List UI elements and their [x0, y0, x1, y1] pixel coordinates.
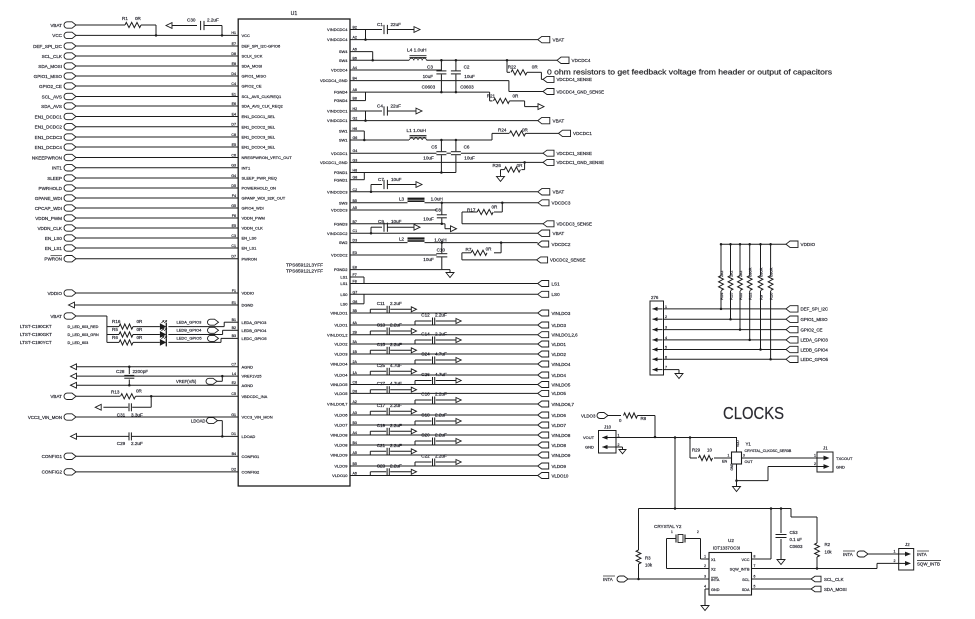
wire L4 to VDCDC4 — [427, 59, 558, 62]
svg-text:TXCOUT: TXCOUT — [836, 456, 853, 461]
wire U1 VINLDO8 pin A4 to port VINLDO8 — [330, 431, 537, 438]
svg-text:LEDC_GPIO5: LEDC_GPIO5 — [177, 336, 203, 341]
svg-text:FGND4: FGND4 — [334, 98, 348, 103]
svg-text:2B: 2B — [353, 331, 358, 335]
input port EN1_DCDC1 with wire to U1 — [35, 112, 276, 119]
svg-text:R29: R29 — [692, 447, 701, 452]
svg-text:2.2uF: 2.2uF — [390, 463, 402, 468]
wire U2 SCL to port — [752, 578, 812, 580]
svg-text:SCL_AVS: SCL_AVS — [42, 94, 62, 99]
wire U1 VDCDC1_GND pin G3 — [320, 158, 543, 165]
capacitor C25 4.7uF — [370, 363, 416, 375]
resistor R15 2k2 — [728, 243, 733, 321]
svg-text:G3: G3 — [353, 158, 358, 162]
svg-text:L1 1.0uH: L1 1.0uH — [407, 128, 427, 134]
svg-text:R26: R26 — [493, 163, 502, 168]
svg-text:0R: 0R — [137, 327, 144, 332]
svg-text:GPIO1_MISO: GPIO1_MISO — [801, 317, 829, 322]
output port VLDO8 — [538, 442, 567, 448]
wire clock rail down — [674, 438, 676, 509]
svg-text:2: 2 — [704, 564, 706, 568]
output port GPIO1_MISO — [786, 316, 828, 322]
svg-text:0.1 uF: 0.1 uF — [790, 537, 803, 542]
svg-text:H8: H8 — [353, 169, 358, 173]
svg-text:A5: A5 — [353, 451, 357, 455]
wire U1 VINLDO9 pin A5 to port VINLDO9 — [330, 451, 537, 458]
svg-text:0R: 0R — [137, 335, 144, 340]
net pointer C4 — [416, 108, 422, 114]
svg-text:VDCDC4: VDCDC4 — [331, 68, 348, 73]
inductor L4 1.0uH — [407, 48, 427, 61]
net pointer VREF with wire to U1 — [71, 372, 263, 379]
wire U1 FGND4 pin B8 — [334, 92, 366, 103]
svg-text:VLDO7: VLDO7 — [334, 423, 348, 428]
wire U1 VDCDC4 pin A4 — [331, 66, 441, 73]
svg-text:B4: B4 — [353, 441, 357, 445]
net pointer C1 — [414, 27, 420, 33]
output port LEDB_GPIO4 — [786, 346, 828, 352]
wire net GPIO2_CE row — [663, 329, 786, 331]
svg-text:D2: D2 — [231, 468, 236, 472]
svg-text:VINLDO1,2,6: VINLDO1,2,6 — [552, 333, 579, 338]
svg-text:10: 10 — [707, 447, 712, 452]
svg-text:276: 276 — [651, 295, 659, 300]
input port EN_LS0 with wire to U1 — [45, 234, 257, 241]
svg-text:F6: F6 — [232, 214, 236, 218]
svg-text:A6: A6 — [353, 472, 357, 476]
svg-text:VDCDC1: VDCDC1 — [331, 151, 348, 156]
svg-text:E5: E5 — [232, 143, 236, 147]
capacitor C30 2.2uF — [187, 18, 223, 37]
svg-text:L3: L3 — [399, 197, 405, 202]
output port VINLDO3 — [538, 310, 571, 316]
svg-text:EN1_DCDC4: EN1_DCDC4 — [35, 145, 63, 150]
capacitor C8 10uF — [423, 203, 447, 224]
svg-text:C15: C15 — [377, 342, 386, 347]
net pointer AGND2 with wire to U1 — [71, 381, 254, 388]
wire riser VINDCDC1 — [364, 111, 367, 122]
svg-text:X1: X1 — [711, 558, 716, 562]
output port VDCDC4 — [557, 57, 591, 63]
svg-text:3B: 3B — [353, 309, 358, 313]
wire U1 VDCDC4_GND pin B4 — [320, 77, 543, 92]
svg-text:B3: B3 — [232, 334, 236, 338]
input port SCL_CLK with wire to U1 — [42, 52, 263, 59]
capacitor C28 2200pF — [116, 366, 148, 387]
svg-text:LS0: LS0 — [340, 292, 348, 297]
wire U1 VINLDO6,7 pin A2 to port VINLDO6,7 — [327, 400, 538, 407]
svg-text:4: 4 — [665, 336, 667, 340]
wire clock VLDO3 rail — [616, 436, 737, 439]
svg-text:SQW_INTB: SQW_INTB — [917, 561, 940, 566]
capacitor C5 10uF — [423, 140, 446, 173]
svg-text:VLDO9: VLDO9 — [552, 464, 567, 469]
svg-text:EN_LS0: EN_LS0 — [45, 236, 63, 241]
svg-text:2.2uF: 2.2uF — [390, 301, 402, 306]
wire U1 VINLDO1,2 pin 2B to port VINLDO1,2,6 — [327, 331, 538, 338]
svg-text:VREF1V25: VREF1V25 — [242, 374, 263, 379]
output port VDDIO — [786, 241, 815, 247]
svg-text:VDCDC3: VDCDC3 — [331, 208, 348, 213]
svg-text:LS1: LS1 — [340, 281, 348, 286]
wire U1 VLDO10 pin A6 to port VLDO10 — [332, 472, 538, 479]
svg-text:SW4: SW4 — [339, 49, 348, 54]
svg-text:R5: R5 — [112, 327, 118, 332]
svg-text:R24: R24 — [498, 127, 507, 132]
wire U1 VLDO5 pin D8 to port VLDO5 — [334, 389, 537, 396]
svg-text:B1: B1 — [232, 318, 236, 322]
svg-text:LEDC_GPIO5: LEDC_GPIO5 — [801, 357, 829, 362]
svg-text:C2: C2 — [464, 64, 470, 69]
svg-text:INT1: INT1 — [242, 165, 251, 170]
capacitor C1 22uF — [377, 22, 414, 34]
svg-text:C6: C6 — [231, 153, 236, 157]
svg-text:6: 6 — [754, 575, 756, 579]
svg-text:FGND4: FGND4 — [334, 90, 348, 95]
svg-text:VLDO6: VLDO6 — [334, 413, 348, 418]
svg-text:EN1_DCDC1_SEL: EN1_DCDC1_SEL — [242, 114, 276, 119]
svg-text:VLDO3: VLDO3 — [334, 352, 348, 357]
svg-text:C29: C29 — [117, 441, 126, 446]
svg-text:4A: 4A — [353, 321, 358, 325]
svg-text:VLDO5: VLDO5 — [552, 391, 567, 396]
output port VDCDC1_SENSE — [543, 150, 592, 156]
svg-text:VLDO6: VLDO6 — [552, 413, 567, 418]
svg-text:VDCDC4_GND: VDCDC4_GND — [320, 78, 348, 83]
svg-text:C7: C7 — [378, 177, 384, 182]
svg-text:VBAT: VBAT — [553, 118, 565, 123]
resistor R9 680R — [758, 243, 763, 351]
svg-text:D3: D3 — [353, 239, 358, 243]
svg-text:4.7uF: 4.7uF — [435, 372, 447, 377]
input port GPANE_WDI with wire to U1 — [35, 194, 286, 201]
output port VLDO4 — [538, 372, 567, 378]
svg-text:Y1: Y1 — [746, 441, 752, 446]
svg-text:VINDCDC4: VINDCDC4 — [327, 37, 348, 42]
svg-text:IDT1337OC3I: IDT1337OC3I — [713, 546, 740, 551]
ground (J10) — [619, 448, 626, 454]
input port DEF_SPI_I2C with wire to U1 — [33, 42, 281, 49]
svg-text:VDCDC1: VDCDC1 — [573, 131, 592, 136]
net pointer AGND1 with wire to U1 — [71, 363, 254, 370]
svg-text:VINLDO5: VINLDO5 — [330, 382, 348, 387]
svg-text:GPIO1_MISO: GPIO1_MISO — [242, 74, 267, 79]
resistor R26 0R — [493, 162, 525, 175]
svg-text:1A: 1A — [353, 371, 358, 375]
wire net GPIO1_MISO row — [663, 318, 786, 320]
capacitor C4 22uF — [377, 104, 416, 116]
input port GPIO2_CE with wire to U1 — [39, 82, 262, 89]
svg-text:R22: R22 — [508, 65, 517, 70]
svg-text:C0603: C0603 — [460, 84, 474, 89]
svg-text:C13: C13 — [377, 323, 386, 328]
resistor R13 0R — [111, 389, 268, 399]
svg-text:2: 2 — [697, 530, 699, 534]
wire U1 VLDO8 pin B4 to port VLDO8 — [334, 441, 537, 448]
capacitor C7 10uF — [371, 177, 416, 192]
svg-text:2.2uF: 2.2uF — [390, 423, 402, 428]
svg-text:A6: A6 — [353, 48, 357, 52]
svg-text:A4: A4 — [353, 431, 357, 435]
svg-text:SLEEP_PWR_REQ: SLEEP_PWR_REQ — [242, 176, 277, 181]
svg-text:VBDCDC_INA: VBDCDC_INA — [242, 394, 268, 399]
svg-text:3A: 3A — [353, 340, 358, 344]
output port VBAT (DCDC3) — [538, 189, 565, 195]
capacitor C10 10uF — [423, 243, 447, 270]
ground (FGND2) — [446, 271, 454, 278]
inductor L2 1.0uH — [399, 236, 447, 242]
svg-text:10uF: 10uF — [423, 216, 434, 221]
svg-text:VLDO4: VLDO4 — [552, 373, 567, 378]
svg-text:0R: 0R — [522, 127, 529, 132]
output port VLDO1 — [538, 341, 567, 347]
svg-text:D_LED_603: D_LED_603 — [68, 341, 89, 345]
input port VDDIO with wire to U1 — [47, 289, 254, 296]
svg-text:2.2uF: 2.2uF — [390, 342, 402, 347]
svg-text:FGND1: FGND1 — [334, 170, 348, 175]
svg-text:2k2: 2k2 — [719, 270, 724, 277]
input port EN1_DCDC4 with wire to U1 — [35, 143, 276, 150]
svg-text:L2: L2 — [399, 236, 405, 241]
svg-text:C2: C2 — [353, 188, 358, 192]
wire U1 SW2 pin D3 — [339, 239, 408, 246]
output port VDCDC3 — [538, 200, 571, 206]
svg-text:VDDN_PWM: VDDN_PWM — [35, 216, 62, 221]
svg-text:3: 3 — [743, 453, 745, 457]
capacitor C24 4.7uF — [415, 351, 461, 364]
output port VDCDC2 — [538, 241, 571, 247]
output port VINLDO6,7 — [538, 401, 575, 407]
svg-text:A2: A2 — [353, 400, 357, 404]
connector J1 — [814, 446, 854, 473]
svg-text:J1: J1 — [823, 446, 828, 451]
svg-text:10uF: 10uF — [464, 155, 475, 160]
svg-text:C1: C1 — [353, 229, 358, 233]
svg-text:LS1: LS1 — [340, 275, 348, 280]
svg-text:C16: C16 — [421, 391, 430, 396]
svg-text:INTA: INTA — [917, 552, 927, 557]
svg-text:VCC3_VIN_MON: VCC3_VIN_MON — [28, 415, 62, 420]
svg-text:C4: C4 — [377, 104, 383, 109]
svg-text:2: 2 — [894, 559, 896, 563]
svg-text:D5: D5 — [231, 184, 236, 188]
svg-text:J10: J10 — [604, 425, 612, 430]
svg-text:POWERHOLD_ON: POWERHOLD_ON — [242, 186, 277, 191]
net pointer DGND with wire to U1 — [69, 301, 254, 308]
svg-text:B5: B5 — [353, 462, 357, 466]
svg-text:1: 1 — [704, 555, 706, 559]
svg-text:SCL_CLK: SCL_CLK — [824, 577, 844, 582]
svg-text:C0603: C0603 — [422, 84, 436, 89]
svg-text:E8: E8 — [353, 266, 357, 270]
svg-text:VLDO10: VLDO10 — [552, 473, 569, 478]
svg-text:C19: C19 — [377, 423, 386, 428]
output port VLDO10 — [538, 473, 569, 479]
svg-text:VBAT: VBAT — [553, 231, 565, 236]
output port VDCDC1_GND_SENSE — [543, 159, 604, 165]
svg-text:C17: C17 — [377, 403, 386, 408]
svg-text:2.2uF: 2.2uF — [435, 391, 447, 396]
input port VBAT (LED supply) — [50, 313, 107, 343]
svg-text:1.0uH: 1.0uH — [434, 237, 446, 242]
svg-text:680R: 680R — [758, 267, 763, 277]
svg-text:CONFIG1: CONFIG1 — [242, 454, 261, 459]
net pointer C7 — [416, 182, 422, 188]
net pointer FGND3 — [451, 226, 457, 232]
svg-text:CONFIG2: CONFIG2 — [242, 470, 261, 475]
svg-text:VINLDO8: VINLDO8 — [552, 433, 571, 438]
svg-text:R2: R2 — [825, 542, 831, 547]
output port GPIO2_CE — [786, 326, 823, 332]
svg-text:SCL: SCL — [742, 578, 749, 582]
svg-text:R15: R15 — [728, 292, 733, 300]
svg-text:VINDCDC4: VINDCDC4 — [327, 27, 348, 32]
svg-text:DEF_SPI_I2C-GPIO6: DEF_SPI_I2C-GPIO6 — [242, 44, 281, 49]
svg-text:R14: R14 — [719, 292, 724, 300]
svg-text:VDDN_CLK: VDDN_CLK — [37, 226, 62, 231]
svg-text:10k: 10k — [645, 563, 653, 568]
svg-text:B4: B4 — [353, 77, 357, 81]
capacitor C27 4.7uF — [370, 381, 416, 393]
wire U1 SW4 pin B6 — [339, 56, 409, 63]
svg-text:B3: B3 — [353, 421, 357, 425]
svg-text:10uF: 10uF — [391, 219, 402, 224]
inductor L1 1.0uH — [407, 128, 427, 140]
svg-text:C0603: C0603 — [790, 544, 803, 549]
svg-text:CRYSTAL Y2: CRYSTAL Y2 — [654, 524, 682, 529]
output port VBAT (DCDC1) — [538, 117, 565, 123]
svg-text:AGND: AGND — [242, 383, 254, 388]
svg-text:VCC: VCC — [242, 33, 251, 38]
wire U2 VCC — [752, 509, 772, 560]
svg-text:E3: E3 — [353, 251, 357, 255]
svg-text:X2: X2 — [711, 567, 716, 571]
capacitor C20 2.2uF — [415, 432, 461, 445]
svg-text:NRESPWRON_VRTC_OUT: NRESPWRON_VRTC_OUT — [242, 155, 293, 160]
svg-text:OUT: OUT — [745, 460, 754, 464]
svg-text:CRYSTAL_CLKOSC_SER3B: CRYSTAL_CLKOSC_SER3B — [745, 449, 792, 453]
svg-text:VINLDO9: VINLDO9 — [552, 453, 571, 458]
wire U1 VINDCDC4 pin B2 — [327, 26, 382, 33]
output port VDCDC4_SENSE — [543, 76, 592, 82]
svg-text:F1: F1 — [232, 289, 236, 293]
svg-text:GND: GND — [585, 445, 594, 450]
svg-text:LDOAD: LDOAD — [191, 418, 205, 423]
wire U1 VINLDO4 pin 2A to port VINLDO4 — [330, 360, 537, 367]
LED D1 with resistor R6 net LEDC_GPIO5 — [20, 334, 267, 346]
svg-text:2A: 2A — [353, 360, 358, 364]
svg-text:D1: D1 — [231, 432, 236, 436]
input port INTA (to U2) — [603, 576, 709, 582]
capacitor C26 4.7uF — [415, 372, 461, 385]
svg-text:R6: R6 — [112, 335, 118, 340]
svg-text:VDCDC1_SENSE: VDCDC1_SENSE — [557, 151, 592, 156]
svg-text:LEDA_GPIO3: LEDA_GPIO3 — [177, 319, 203, 324]
svg-text:VREF(V/5): VREF(V/5) — [176, 379, 197, 384]
wire U1 FGND1 pin G8 — [334, 173, 364, 183]
wire U1 VLDO1 pin 4A to port VLDO3 — [334, 321, 537, 328]
capacitor C19 2.2uF — [370, 423, 416, 435]
svg-text:VBAT: VBAT — [553, 37, 565, 42]
svg-text:2k2: 2k2 — [738, 270, 743, 277]
wire J10 GND — [616, 447, 623, 448]
svg-text:R21: R21 — [487, 93, 496, 98]
svg-text:0R: 0R — [513, 93, 520, 98]
svg-text:LTST-C190GKT: LTST-C190GKT — [20, 332, 52, 337]
svg-text:VLDO8: VLDO8 — [552, 443, 567, 448]
svg-text:LEDB_GPIO4: LEDB_GPIO4 — [177, 328, 203, 333]
svg-text:VDDN_PWM: VDDN_PWM — [242, 216, 265, 221]
wire U1 VLDO7 pin B3 to port VLDO7 — [334, 421, 537, 428]
svg-text:LS0: LS0 — [340, 301, 348, 306]
output port VINLDO5 — [538, 382, 571, 388]
capacitor C2 10uF C0603 — [451, 60, 475, 92]
wire U1 FGND3 pin B7 — [334, 220, 443, 227]
input port VBAT with wire to U1 — [50, 22, 125, 28]
svg-text:1.0uH: 1.0uH — [431, 197, 443, 202]
resistor R1 0R — [122, 16, 142, 28]
output port VDCDC2_SENSE — [537, 257, 586, 263]
svg-text:VCC3_VIN_MON: VCC3_VIN_MON — [242, 415, 273, 420]
svg-text:VINLDO4: VINLDO4 — [552, 362, 571, 367]
svg-text:2k2: 2k2 — [728, 270, 733, 277]
svg-text:DGND: DGND — [242, 303, 254, 308]
svg-text:G6: G6 — [353, 136, 358, 140]
output port VBAT (DCDC4) — [538, 36, 565, 42]
svg-text:LEDB_GPIO4: LEDB_GPIO4 — [242, 328, 268, 333]
svg-text:VINLDO6,7: VINLDO6,7 — [327, 402, 348, 407]
capacitor C16 2.2uF — [415, 391, 461, 404]
ground (R26) — [497, 175, 505, 182]
svg-text:VLDO7: VLDO7 — [552, 423, 567, 428]
input port SLEEP with wire to U1 — [47, 174, 277, 181]
svg-text:G3: G3 — [231, 164, 236, 168]
svg-text:VINDCDC3: VINDCDC3 — [327, 189, 348, 194]
svg-text:B7: B7 — [353, 220, 357, 224]
svg-text:LEDA_GPIO3: LEDA_GPIO3 — [242, 320, 268, 325]
ground (C53) — [777, 558, 785, 565]
wire U1 FGND2 pin E8 — [334, 266, 450, 273]
svg-text:E6: E6 — [232, 102, 236, 106]
svg-text:EN1_DCDC4_SEL: EN1_DCDC4_SEL — [242, 145, 276, 150]
capacitor C3 10uF C0603 — [422, 60, 447, 92]
wire U1 FGND4 pin A8 — [334, 88, 490, 95]
svg-text:D8: D8 — [353, 389, 358, 393]
output port SCL_CLK — [811, 576, 844, 582]
svg-text:VINLDO1: VINLDO1 — [330, 311, 348, 316]
input port VREF(V/5) — [176, 375, 224, 384]
svg-text:VLDO5: VLDO5 — [334, 391, 348, 396]
resistor R22 0R — [507, 60, 543, 79]
svg-text:R12: R12 — [748, 292, 753, 300]
LED D2 with resistor R5 net LEDB_GPIO4 — [20, 326, 267, 338]
svg-text:INT1: INT1 — [52, 166, 62, 171]
wire U1 VDCDC3 pin A5 — [331, 206, 437, 213]
svg-text:GPANE_WDI: GPANE_WDI — [35, 196, 62, 201]
capacitor C14 2.2uF — [415, 331, 461, 344]
wire U1 VLDO4 pin 1A to port VLDO4 — [334, 371, 537, 378]
output port VLDO7 — [538, 422, 567, 428]
svg-text:FGND2: FGND2 — [334, 267, 348, 272]
wire net LEDC_GPIO5 row — [663, 358, 786, 360]
svg-text:VINDCDC2: VINDCDC2 — [327, 231, 348, 236]
wire net LEDA_GPIO3 row — [663, 339, 786, 341]
svg-text:A4: A4 — [353, 66, 357, 70]
svg-text:VDCDC3_SENSE: VDCDC3_SENSE — [557, 222, 592, 227]
svg-text:SLEEP: SLEEP — [47, 176, 62, 181]
wire U1 LS0 pin G7 to port — [340, 290, 537, 297]
svg-text:R7: R7 — [466, 247, 472, 252]
